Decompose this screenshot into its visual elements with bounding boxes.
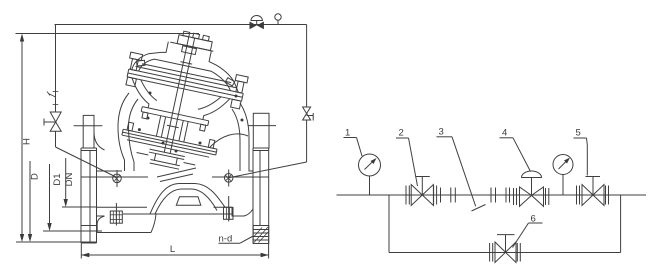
svg-text:1: 1: [345, 128, 350, 139]
right flange: [253, 148, 269, 244]
valve V6: [490, 235, 521, 263]
top cap: [170, 29, 216, 51]
boss left (circle-cross): [113, 170, 122, 187]
needle valve NV2: [303, 107, 314, 121]
dimension DN line: [62, 158, 97, 207]
svg-text:DN: DN: [64, 173, 75, 187]
pilot left cock: [47, 92, 56, 98]
svg-text:5: 5: [576, 128, 581, 139]
body centre arch inner: [155, 189, 217, 214]
joint flange pair C: [491, 188, 496, 203]
svg-text:D1: D1: [52, 173, 63, 185]
outlet upper wall: [210, 134, 248, 147]
body right upper wall: [232, 103, 249, 171]
pilot left vertical line: [55, 25, 57, 113]
body bore bottom line: [97, 206, 233, 208]
body outer bottom line: [123, 213, 232, 215]
pilot left diagonal to boss: [56, 147, 118, 178]
bolt dots: [138, 92, 244, 153]
body centre arch outer: [150, 184, 225, 215]
body left upper wall: [118, 93, 138, 171]
pilot right vertical line: [306, 25, 308, 108]
svg-text:H: H: [22, 138, 33, 145]
valve V2: [406, 177, 437, 206]
body joint flange: [121, 121, 219, 158]
bypass right riser: [620, 195, 622, 253]
svg-text:2: 2: [399, 128, 404, 139]
label 3 with break tick: [437, 127, 486, 212]
gauge G2: [553, 155, 573, 196]
pilot left flange ticks: [53, 92, 59, 105]
valve V4 main valve: [506, 171, 549, 206]
body left U-cut: [94, 132, 105, 150]
bypass line: [389, 252, 621, 254]
band left stud: [124, 52, 143, 87]
left flange: [81, 148, 97, 243]
dimension D line: [28, 161, 32, 242]
diaphragm band: [127, 69, 243, 101]
right foot step: [232, 207, 253, 216]
valve V5: [577, 177, 609, 206]
label 4: [500, 128, 531, 172]
body arch window: [176, 197, 201, 205]
right flange top boss: [248, 113, 276, 148]
label 6: [513, 214, 543, 248]
svg-text:4: 4: [502, 128, 507, 139]
joint flange pair B: [451, 188, 456, 203]
dimension H line: [16, 34, 200, 243]
svg-text:L: L: [170, 244, 175, 255]
pilot top line: [55, 24, 307, 26]
n-d label: [219, 234, 254, 245]
boss right (circle-cross): [224, 170, 233, 187]
actuator assembly (rotated about stem axis): [109, 21, 255, 179]
left flange top boss: [74, 115, 103, 148]
joint flange bar A: [440, 188, 442, 203]
label 1: [344, 128, 363, 157]
svg-text:3: 3: [439, 127, 444, 138]
main pipe line: [337, 194, 647, 196]
pilot left lower line: [55, 131, 57, 147]
needle valve NV1: [44, 112, 61, 131]
label 5: [574, 128, 588, 176]
pilot right lower line: [306, 120, 308, 162]
disc assembly: [135, 147, 196, 173]
band right stud: [230, 75, 249, 110]
lower chamber: [127, 78, 230, 124]
chamber bolt ring: [140, 107, 209, 132]
gauge G1: [359, 154, 381, 195]
label 2: [396, 128, 418, 187]
dimension L line: [81, 244, 268, 259]
body bore top line: [81, 176, 269, 178]
stem: [160, 36, 198, 154]
body outer top line: [97, 170, 254, 172]
pilot mini diaphragm valve: [250, 16, 264, 30]
pilot gauge port: [275, 14, 281, 25]
dome cover: [132, 35, 246, 92]
left foot: [97, 214, 157, 233]
right pad: [224, 196, 234, 222]
left pad: [110, 203, 122, 226]
bypass left riser: [388, 195, 390, 253]
pilot right diagonal to boss: [229, 162, 307, 178]
right flange n-d bolt hatch block: [253, 226, 269, 244]
bonnet neck: [156, 116, 188, 142]
svg-text:D: D: [30, 173, 41, 180]
seat ring lines: [157, 168, 196, 182]
dimension D1 line: [43, 164, 102, 231]
